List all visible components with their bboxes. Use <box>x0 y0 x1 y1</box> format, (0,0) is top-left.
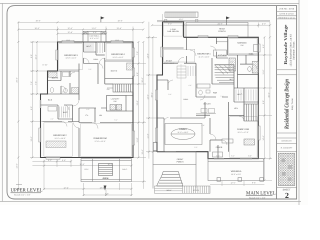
upper plan left dimension ticks <box>16 41 38 190</box>
UPPER LEVEL title <box>11 188 43 197</box>
svg-text:5'-10": 5'-10" <box>42 63 47 66</box>
firm name block (rotated): Residential Concept Design <box>284 79 294 130</box>
svg-text:REAR: REAR <box>219 27 225 30</box>
svg-text:11'-0": 11'-0" <box>92 27 97 30</box>
svg-text:W.I.C.: W.I.C. <box>237 93 243 96</box>
main plan top deck stair comb <box>165 12 198 17</box>
svg-text:BEDROOM 4: BEDROOM 4 <box>111 53 125 56</box>
hall walls around stairs <box>98 61 133 84</box>
svg-text:SCALE: 1/4" = 1'-0": SCALE: 1/4" = 1'-0" <box>249 196 266 199</box>
svg-text:6'-2": 6'-2" <box>86 108 90 111</box>
svg-text:15'-8": 15'-8" <box>79 163 84 166</box>
svg-text:19'-4": 19'-4" <box>141 149 144 154</box>
logo / stamp hatch block <box>278 153 294 185</box>
svg-text:40'-6": 40'-6" <box>267 92 270 97</box>
bedroom3 closet <box>84 42 96 64</box>
svg-text:COV.: COV. <box>84 168 89 171</box>
svg-text:UTIL: UTIL <box>234 107 238 110</box>
svg-text:WALK: WALK <box>166 189 172 192</box>
svg-text:3'-2": 3'-2" <box>88 68 92 71</box>
hall closets above gameroom <box>79 108 107 123</box>
main plan interior dim line <box>180 64 182 118</box>
upper plan left dimension lines <box>18 22 57 189</box>
bath zone <box>41 71 80 94</box>
svg-text:BATH 2: BATH 2 <box>111 70 117 73</box>
svg-text:12'-8": 12'-8" <box>146 53 149 58</box>
svg-text:5'-6": 5'-6" <box>62 159 66 162</box>
upper plan closet combs <box>60 43 103 118</box>
svg-text:12'-0": 12'-0" <box>30 136 33 141</box>
svg-text:14'-6": 14'-6" <box>146 94 149 99</box>
main plan family room fireplace <box>222 139 255 145</box>
upper plan laundry room <box>107 96 127 112</box>
svg-text:STEPS: STEPS <box>193 189 200 192</box>
gameroom top <box>79 122 133 124</box>
svg-text:OPEN: OPEN <box>103 177 109 180</box>
svg-text:7'-6": 7'-6" <box>34 81 37 85</box>
svg-text:FRONT: FRONT <box>177 158 184 161</box>
main plan windows (double lines) <box>157 37 258 158</box>
main plan door arcs <box>164 46 257 145</box>
main plan rear porch outline <box>186 23 248 38</box>
svg-text:GAR. BELOW: GAR. BELOW <box>167 30 179 33</box>
svg-text:2640: 2640 <box>115 39 119 42</box>
main plan north flag <box>226 17 230 26</box>
main plan front porch <box>153 152 196 189</box>
svg-text:12'-4": 12'-4" <box>67 31 72 34</box>
main plan exterior walls <box>157 22 258 159</box>
title block small credit rows <box>281 140 294 150</box>
svg-text:6'-0": 6'-0" <box>216 154 220 157</box>
title block top small text rows <box>279 8 296 20</box>
svg-text:4'-0": 4'-0" <box>50 118 54 121</box>
svg-text:5'-0": 5'-0" <box>230 60 234 63</box>
svg-text:DN: DN <box>107 88 110 91</box>
svg-text:9'-6": 9'-6" <box>252 182 256 185</box>
main plan bottom dimension lines <box>210 181 264 186</box>
svg-text:8'-0": 8'-0" <box>62 90 66 93</box>
svg-text:14'-4": 14'-4" <box>262 135 265 140</box>
upper plan bath fixtures <box>48 63 133 111</box>
upper plan right dimension lines <box>132 42 147 189</box>
svg-text:10'-4": 10'-4" <box>34 54 37 59</box>
main plan closet combs <box>188 66 256 101</box>
svg-text:9'-2": 9'-2" <box>30 106 33 110</box>
main plan walkway band with rungs <box>155 186 211 193</box>
sheet number box <box>283 189 292 200</box>
svg-text:14'-6": 14'-6" <box>16 163 19 168</box>
svg-text:RM: RM <box>114 100 117 103</box>
main plan powder fixtures <box>199 90 210 95</box>
upper plan bay door double line <box>84 41 105 44</box>
main plan right stair rungs <box>244 104 258 121</box>
svg-text:6'-8": 6'-8" <box>201 124 205 127</box>
svg-text:13'-4": 13'-4" <box>116 27 121 30</box>
svg-text:9'-8": 9'-8" <box>30 54 33 58</box>
svg-text:7'-6": 7'-6" <box>30 81 33 85</box>
svg-text:BALC.: BALC. <box>122 168 128 171</box>
bedroom4 left wall <box>104 42 106 61</box>
upper plan exterior walls <box>41 42 134 158</box>
svg-text:PORCH: PORCH <box>177 160 184 163</box>
main plan butler counter boxes <box>196 109 216 114</box>
svg-text:12'-0" x 11'-6": 12'-0" x 11'-6" <box>113 56 124 59</box>
upper plan top balcony bay <box>83 32 106 43</box>
svg-text:DATE 8-10-10: DATE 8-10-10 <box>280 12 295 15</box>
svg-text:9'-6": 9'-6" <box>168 93 172 96</box>
middle band <box>41 105 73 122</box>
MAIN LEVEL title <box>246 190 276 199</box>
main plan interior walls <box>157 37 258 158</box>
svg-text:11'-8": 11'-8" <box>136 137 139 142</box>
bedroom3 bottom <box>58 70 80 72</box>
upper plan top bay tiny text <box>66 35 119 42</box>
svg-text:12'-2" x 13'-0": 12'-2" x 13'-0" <box>54 137 65 140</box>
upper plan left dimension text <box>16 54 48 169</box>
upper plan right dimension ticks <box>137 41 144 183</box>
svg-text:5'-4": 5'-4" <box>114 119 118 122</box>
svg-text:24'-2": 24'-2" <box>16 77 19 82</box>
svg-text:DESIGN BY: DESIGN BY <box>281 140 292 143</box>
svg-text:BATH 3: BATH 3 <box>52 77 58 80</box>
svg-text:26'-6": 26'-6" <box>141 77 144 82</box>
upper plan walk arrow <box>104 186 107 191</box>
main plan room labels <box>164 28 255 176</box>
svg-text:REVISED 1-12-11: REVISED 1-12-11 <box>279 16 296 19</box>
drawing border frame (rounded left corners) <box>7 6 297 199</box>
svg-text:BA 2: BA 2 <box>48 99 52 102</box>
svg-text:2: 2 <box>285 191 289 200</box>
upper plan inner wall face lines <box>44 43 132 156</box>
upper plan bedroom2 bay seat <box>46 141 66 148</box>
hall top wall <box>84 61 133 64</box>
svg-text:12'-0": 12'-0" <box>230 182 235 185</box>
svg-text:DINING: DINING <box>179 128 187 131</box>
svg-text:20'-0" x 8'-0": 20'-0" x 8'-0" <box>231 173 241 176</box>
main plan kitchen fixtures <box>197 42 258 88</box>
main plan inner wall face lines <box>164 23 257 157</box>
upper plan top dimension lines <box>18 22 143 42</box>
svg-text:Residential Concept Design: Residential Concept Design <box>284 79 291 130</box>
svg-text:12'-8": 12'-8" <box>136 100 139 105</box>
main plan chimney box on left wall <box>153 143 157 151</box>
svg-text:SCALE: 1/4" = 1'-0": SCALE: 1/4" = 1'-0" <box>14 194 31 197</box>
svg-text:11'-0": 11'-0" <box>262 69 265 74</box>
svg-text:8'-0" x 3'-6": 8'-0" x 3'-6" <box>90 37 99 40</box>
stairs top wall <box>105 83 113 85</box>
svg-text:BUTLER: BUTLER <box>203 102 211 105</box>
main plan right dimension lines <box>258 22 272 181</box>
svg-text:VERANDA: VERANDA <box>231 170 242 173</box>
main plan pantry <box>177 66 186 78</box>
upper plan linen closet right of laundry <box>126 96 133 112</box>
upper plan bottom dimension ticks <box>43 160 133 196</box>
upper plan door arcs <box>61 58 105 129</box>
svg-text:4'-6": 4'-6" <box>188 84 192 87</box>
svg-text:18'-8": 18'-8" <box>117 20 122 23</box>
main plan center curved stair <box>215 65 234 83</box>
upper plan window bumps <box>39 40 135 159</box>
right bath cluster <box>238 55 259 88</box>
svg-text:GAMEROOM: GAMEROOM <box>93 137 106 140</box>
upper plan open-below balcony room <box>81 159 132 182</box>
svg-text:JOB NO. 10-08: JOB NO. 10-08 <box>279 8 295 11</box>
title block left edge <box>276 6 278 199</box>
svg-text:12'-6": 12'-6" <box>67 27 72 30</box>
svg-text:7'-2": 7'-2" <box>136 51 139 55</box>
svg-text:Galveston, Texas: Galveston, Texas <box>292 41 295 60</box>
svg-text:W.I.C.: W.I.C. <box>63 111 69 114</box>
svg-text:12'-4": 12'-4" <box>63 186 68 189</box>
svg-text:19'-8": 19'-8" <box>34 27 39 30</box>
svg-text:6'-2": 6'-2" <box>262 44 265 48</box>
upper plan stairs (horizontal band, vertical rungs) <box>107 84 133 92</box>
upper plan right dimension text <box>136 51 144 155</box>
svg-text:PORCH: PORCH <box>218 30 226 33</box>
svg-text:19'-8": 19'-8" <box>35 20 40 23</box>
main plan top deck edge double line <box>157 19 270 22</box>
svg-text:11'-0" x 12'-0": 11'-0" x 12'-0" <box>199 55 210 58</box>
svg-text:9'-8": 9'-8" <box>262 100 265 104</box>
center stair walls <box>212 58 234 84</box>
svg-text:BEDROOM 3: BEDROOM 3 <box>64 54 78 57</box>
kitchen <box>216 37 228 58</box>
svg-text:16'-0": 16'-0" <box>179 18 184 21</box>
upper plan bottom dimension text <box>48 159 113 196</box>
svg-text:Katy, Texas: Katy, Texas <box>291 97 294 110</box>
bedroom2 top <box>43 121 80 123</box>
svg-text:PDR: PDR <box>213 92 218 95</box>
svg-text:KITCHEN: KITCHEN <box>218 54 227 57</box>
svg-text:11'-6" x 13'-0": 11'-6" x 13'-0" <box>178 131 189 134</box>
svg-text:W.C.: W.C. <box>230 78 234 81</box>
svg-text:FOYER: FOYER <box>216 146 223 149</box>
upper plan interior walls <box>41 42 134 158</box>
main plan dining table <box>165 124 202 145</box>
svg-text:RM: RM <box>241 44 244 47</box>
svg-text:W.I.C.: W.I.C. <box>86 45 92 48</box>
upper plan open-below stair blob <box>99 164 113 181</box>
svg-text:LIN: LIN <box>99 114 103 117</box>
svg-text:5'-2": 5'-2" <box>231 154 235 157</box>
svg-text:8'-6": 8'-6" <box>105 192 109 195</box>
main plan foyer niche <box>213 152 223 157</box>
svg-text:Bayshade Village: Bayshade Village <box>283 24 288 64</box>
svg-text:11'-2": 11'-2" <box>146 133 149 138</box>
svg-text:BEDROOM 1: BEDROOM 1 <box>197 53 211 56</box>
svg-text:17'-8" x 15'-6": 17'-8" x 15'-6" <box>94 140 105 143</box>
main plan top dimension line <box>152 14 270 28</box>
svg-text:CL.: CL. <box>86 114 89 117</box>
main plan window bumps <box>155 36 260 143</box>
svg-text:R. CONCEPT: R. CONCEPT <box>281 147 294 150</box>
project address block (rotated) <box>283 24 296 66</box>
scattered interior dimension texts <box>50 60 234 149</box>
svg-text:7'-0": 7'-0" <box>220 95 224 98</box>
spine wall <box>78 64 80 158</box>
svg-text:8'-0": 8'-0" <box>248 154 252 157</box>
svg-text:13'-0" x 11'-6": 13'-0" x 11'-6" <box>66 57 77 60</box>
svg-text:STUDY: STUDY <box>166 60 173 63</box>
main plan interior dim text row above bottom wall <box>216 154 252 157</box>
svg-text:BEDROOM 2: BEDROOM 2 <box>53 134 67 137</box>
svg-text:4'-0": 4'-0" <box>262 23 266 26</box>
title block divider lines <box>277 11 297 187</box>
svg-text:5'-2": 5'-2" <box>194 146 198 149</box>
upper plan windows (double lines over walls) <box>41 42 134 158</box>
svg-text:6'-8": 6'-8" <box>136 72 139 76</box>
svg-text:FAMILY RM: FAMILY RM <box>237 128 249 131</box>
svg-text:2640: 2640 <box>66 39 70 42</box>
svg-text:10'-0" x 11'-0": 10'-0" x 11'-0" <box>164 62 175 65</box>
svg-text:38'-0": 38'-0" <box>150 92 153 97</box>
powder / butler <box>196 63 228 115</box>
wing room <box>163 47 184 49</box>
main plan left dimension lines <box>146 22 163 159</box>
svg-text:M.BA: M.BA <box>249 53 254 56</box>
upper plan top dimension ticks <box>17 21 144 35</box>
upper plan top dimension text <box>34 20 122 35</box>
upper plan room labels <box>48 45 125 143</box>
main plan rear porch label <box>218 27 226 33</box>
upper plan bottom dimension lines <box>32 160 131 197</box>
upper plan north flag <box>101 17 105 23</box>
svg-text:HALL: HALL <box>184 98 189 101</box>
main plan front entry steps (bell) <box>157 172 183 187</box>
svg-text:15'-2" x 17'-0": 15'-2" x 17'-0" <box>237 131 248 134</box>
svg-text:HALL: HALL <box>94 58 99 61</box>
main plan veranda <box>208 159 264 182</box>
main plan extra bath wall <box>245 55 247 64</box>
